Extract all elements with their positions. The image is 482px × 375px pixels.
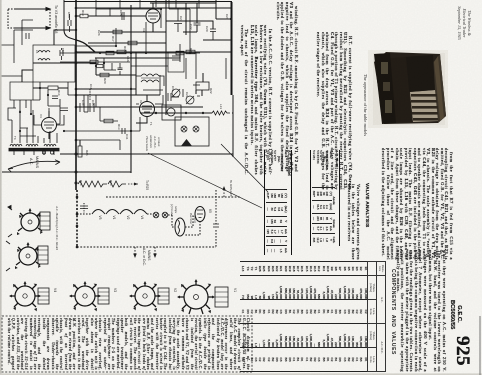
wire ht choke link — [76, 63, 116, 75]
svg-text:V3: V3 — [113, 288, 117, 292]
resistor R13 — [104, 119, 113, 123]
valve base b1 circle — [18, 209, 42, 231]
svg-text:V3: V3 — [98, 216, 102, 220]
wire left stubs — [0, 45, 22, 82]
node mains dots — [155, 112, 204, 114]
wire y46 — [76, 28, 116, 46]
wire y66 link — [131, 65, 168, 67]
label To A1 — [54, 5, 58, 25]
label R17 — [111, 36, 115, 42]
label R21 — [189, 48, 193, 54]
svg-text:C15: C15 — [67, 12, 71, 18]
svg-text:V1: V1 — [112, 216, 116, 220]
capacitor C33 — [60, 108, 68, 111]
label C14 — [61, 48, 65, 54]
wire vertical x186 — [185, 3, 187, 35]
wire AGC rail — [76, 106, 203, 108]
label C24 — [179, 16, 183, 22]
barretter — [175, 218, 185, 236]
wire ACDC dashed bottom rail — [77, 246, 216, 248]
wire vertical x166 — [165, 0, 167, 115]
wire agc mesh — [84, 95, 96, 107]
svg-text:C23: C23 — [225, 14, 229, 20]
wire selector drop — [196, 73, 203, 96]
wire left verticals — [14, 20, 33, 63]
svg-text:R20: R20 — [103, 78, 107, 84]
wire vertical x197 — [196, 3, 198, 23]
svg-text:C18: C18 — [89, 84, 93, 90]
svg-text:V2: V2 — [126, 216, 130, 220]
node T4 terminals — [42, 151, 53, 154]
resistor R10 — [96, 65, 103, 68]
wire schematic right border — [232, 95, 234, 157]
resistor R23 zigzag — [108, 181, 126, 187]
wire ift links — [96, 58, 116, 70]
label To C8 — [54, 24, 58, 33]
svg-text:R23: R23 — [109, 180, 113, 186]
svg-text:R24: R24 — [79, 180, 83, 186]
valve base V1 wheel — [178, 280, 214, 314]
label R25 — [85, 150, 89, 156]
wire anode feed — [100, 31, 166, 33]
label V2b — [173, 288, 177, 292]
label R20 — [103, 78, 107, 84]
wire det branch — [171, 89, 183, 97]
VALVE ANALYSIS intro note — [346, 184, 360, 260]
label R23 — [109, 180, 113, 186]
valve table AC model — [294, 150, 340, 246]
label C31 — [125, 134, 129, 140]
wire screen rail — [76, 51, 231, 53]
wire ACDC dashed top rail — [106, 196, 240, 198]
text column 2 paragraph — [373, 148, 453, 260]
resistor R15 — [106, 51, 114, 55]
IF transformer T3 box — [10, 82, 33, 100]
label R14 — [57, 90, 61, 96]
wire barretter links dashed — [168, 190, 216, 247]
wire selector feeds — [193, 85, 200, 96]
wire vertical x247 — [231, 2, 233, 95]
wire v4 anode leads — [34, 108, 64, 125]
valve base V2 top cap — [158, 288, 169, 304]
svg-text:V1: V1 — [233, 288, 237, 292]
svg-text:omitted in: omitted in — [149, 135, 153, 148]
wire top stubs — [96, 0, 199, 9]
svg-text:T1: T1 — [149, 122, 153, 126]
wire t3 bottom leads — [14, 100, 31, 114]
label V4 — [39, 114, 43, 118]
svg-text:To C8: To C8 — [54, 24, 58, 33]
coil L5 — [38, 51, 50, 61]
svg-text:C20: C20 — [205, 26, 209, 32]
svg-text:To R25,C23: To R25,C23 — [229, 180, 233, 197]
capacitor C22 — [183, 23, 201, 32]
capacitor C35 electrolytic — [90, 103, 94, 112]
capacitor C19 — [105, 12, 124, 20]
svg-text:C24: C24 — [179, 16, 183, 22]
svg-text:Barretter: Barretter — [189, 213, 193, 225]
label V3 — [142, 28, 146, 32]
tuning capacitor C21 — [186, 96, 194, 104]
wire bottom net 2 — [100, 107, 118, 121]
scale lamp 2 — [162, 212, 168, 218]
wire top rail 1 — [150, 2, 216, 4]
wire y140 rail — [76, 140, 120, 150]
aerial coupling dashed box — [8, 9, 50, 28]
svg-text:(2) Scale: (2) Scale — [170, 204, 174, 215]
node voltage taps — [175, 117, 209, 146]
mains transformer T4 primary — [9, 144, 59, 151]
svg-text:C25: C25 — [119, 10, 123, 16]
svg-text:R17: R17 — [111, 36, 115, 42]
svg-text:C26: C26 — [97, 30, 101, 36]
wire right inner vertical — [230, 58, 232, 95]
svg-text:A.C./D.C.: A.C./D.C. — [153, 135, 157, 149]
valve base V1 top cap — [215, 287, 228, 307]
svg-text:V2: V2 — [139, 100, 143, 104]
capacitor C36 dashed — [80, 203, 88, 213]
label V5 — [208, 209, 212, 213]
wire speaker links — [136, 76, 164, 90]
label V1b — [233, 288, 237, 292]
wire bottom net 1 — [84, 95, 88, 112]
capacitor C28 — [168, 93, 171, 101]
node To R25 arrow2 — [223, 188, 225, 197]
wire HT secondary loop — [8, 108, 36, 136]
capacitor box C29 — [168, 52, 184, 72]
capacitor C20 — [210, 29, 216, 40]
node selector taps — [181, 126, 199, 132]
wire y53 long — [60, 52, 200, 54]
wire cathode rail — [76, 94, 160, 96]
node mains arrowheads — [133, 254, 157, 259]
label R19 — [81, 10, 85, 16]
inductor heater V3 hump — [92, 210, 105, 215]
COMPONENTS AND VALUES heading — [387, 263, 396, 361]
svg-text:A.C. Model (top) A.C./D.C. Mod: A.C. Model (top) A.C./D.C. Model — [55, 205, 59, 250]
svg-text:R22: R22 — [209, 88, 213, 94]
label A.C. mains — [29, 156, 39, 168]
inductor heater V1 hump — [106, 210, 119, 215]
page edge bottom — [0, 373, 482, 375]
valve V3 — [146, 3, 160, 32]
label C18 — [89, 84, 93, 90]
capacitor C14 — [60, 48, 63, 60]
wire y21 branch — [166, 21, 213, 29]
wire ift top lead — [54, 30, 76, 45]
svg-text:R16: R16 — [126, 56, 130, 62]
label V4 — [53, 288, 57, 292]
svg-text:MAINS: MAINS — [35, 156, 39, 168]
svg-text:MAINS: MAINS — [147, 250, 151, 261]
A.C. mains arrow — [8, 160, 60, 172]
svg-text:V5: V5 — [208, 209, 212, 213]
label V3 — [98, 216, 102, 220]
node To A arrow — [14, 8, 50, 11]
svg-text:A.C. or D.C.: A.C. or D.C. — [142, 248, 146, 266]
wire heater chain dashed — [77, 213, 153, 215]
capacitor C2 — [26, 33, 29, 39]
wire x190 drop — [180, 9, 190, 62]
capacitor C18 — [89, 89, 91, 101]
svg-text:V4: V4 — [140, 216, 144, 220]
svg-text:L5: L5 — [35, 50, 39, 54]
pointer line to caption — [221, 144, 268, 192]
svg-text:C31: C31 — [125, 134, 129, 140]
wire grid rail — [76, 88, 136, 90]
valve base V2 wheel — [130, 282, 160, 307]
svg-text:V4: V4 — [39, 114, 43, 118]
label AC model — [55, 205, 59, 250]
wire V3 grid lead — [90, 15, 146, 17]
svg-text:R18: R18 — [123, 46, 127, 52]
text column strip 1b — [238, 25, 272, 175]
mains selector box — [196, 82, 209, 90]
node dashed junctions — [76, 196, 79, 249]
label R16 — [126, 56, 130, 62]
components table — [240, 261, 386, 372]
svg-text:V4: V4 — [53, 288, 57, 292]
wire mid verticals — [186, 52, 226, 79]
svg-text:R13: R13 — [117, 124, 121, 130]
node t3 dots — [19, 111, 32, 115]
label AC DC mains — [142, 248, 151, 266]
wire avc left — [22, 70, 33, 82]
svg-text:L13: L13 — [219, 104, 223, 109]
label C20 — [205, 26, 209, 32]
VALVE ANALYSIS heading — [362, 183, 369, 225]
wire y62 — [60, 61, 130, 63]
wire x60 drop — [57, 99, 60, 124]
svg-text:C35: C35 — [91, 100, 95, 106]
label R24 — [79, 180, 83, 186]
sheet number 925 — [452, 334, 471, 368]
wire mains line y113 — [140, 112, 233, 114]
capacitor C15 — [68, 14, 71, 32]
wire det rail — [33, 62, 76, 64]
svg-text:C11: C11 — [171, 86, 175, 92]
label V2 — [126, 216, 130, 220]
capacitor C31 — [122, 128, 125, 134]
resistor R21 — [166, 50, 203, 58]
resistor R16 — [117, 50, 126, 54]
rectifier valve V4 — [42, 111, 57, 139]
label C22 — [189, 24, 193, 30]
rectifier valve V5 — [195, 207, 205, 222]
circuit caption text — [6, 318, 250, 370]
wire top edge rail — [64, 1, 232, 3]
label C35 — [91, 100, 95, 106]
wire y75 ext — [116, 74, 136, 76]
resistor R12 — [176, 51, 184, 55]
svg-text:lamps: lamps — [174, 206, 178, 214]
valve base b1 frame — [8, 206, 50, 238]
svg-text:These leads: These leads — [145, 136, 149, 152]
IF transformer T2 box — [33, 45, 75, 82]
valve base b2 frame — [6, 241, 48, 271]
scale lamp 1 — [153, 212, 159, 218]
wire ACDC dashed bus — [76, 190, 78, 247]
col3 note: measurement conditions — [390, 250, 446, 372]
resistor R14 — [33, 86, 68, 90]
wire bus jog — [76, 40, 95, 52]
resistor R20 — [100, 73, 109, 77]
wire v2 anode net — [136, 75, 163, 104]
wire osc vertical — [64, 0, 76, 40]
node arrowhead2 — [222, 186, 225, 190]
svg-text:R25: R25 — [85, 150, 89, 156]
label C25 — [119, 10, 123, 16]
resistor R24 zigzag — [78, 181, 107, 187]
label T1 — [149, 122, 153, 126]
resistor R18 — [128, 41, 137, 45]
label C15 — [67, 12, 71, 18]
wire vertical x136 — [135, 52, 137, 95]
pointer from label — [148, 153, 262, 208]
resistor R19 — [76, 14, 96, 18]
speaker transformer T1 — [141, 74, 159, 82]
node base arrowheads — [9, 208, 215, 313]
wire x146 drop — [145, 22, 147, 53]
label V1 — [112, 216, 116, 220]
valve base b2 circle — [16, 243, 40, 265]
wire y131 rail — [64, 117, 140, 131]
wire aux rail — [95, 57, 166, 59]
label L5 — [35, 50, 39, 54]
wire T4 leads down — [14, 148, 54, 155]
svg-text:A.C.: A.C. — [29, 158, 33, 165]
label C11 — [171, 86, 175, 92]
text column strip 2 — [300, 32, 352, 190]
label R18 — [123, 46, 127, 52]
valve base V3 wheel — [70, 282, 100, 307]
node frame dots — [130, 52, 132, 132]
node extra dots — [19, 8, 232, 132]
capacitor C27 — [118, 63, 123, 75]
label barretter 304 — [189, 213, 197, 225]
svg-text:V2: V2 — [173, 288, 177, 292]
resistor R11 — [90, 60, 98, 64]
resistor R22 — [212, 111, 230, 115]
label T4 — [13, 136, 17, 140]
photo caption: The appearance of the table models — [353, 72, 368, 138]
valve V2 — [136, 95, 155, 123]
label To R25 C23b — [229, 180, 233, 197]
capacitor C34 electrolytic — [76, 103, 90, 112]
svg-text:T4: T4 — [13, 136, 17, 140]
wire top inner verticals — [96, 3, 178, 21]
wire T4 leads up — [12, 110, 57, 143]
wire frame vertical x131 — [130, 5, 132, 173]
valve base V4 wheel — [10, 282, 40, 307]
label V3b — [113, 288, 117, 292]
node to R25 arrow — [128, 183, 138, 186]
resistor R17 — [113, 30, 122, 34]
wire top rail 2 — [76, 7, 231, 9]
header: The Wireless & Electrical Trader date — [459, 3, 471, 43]
label V2 — [139, 100, 143, 104]
page edge left — [0, 0, 2, 375]
tuning capacitor C11 — [172, 89, 180, 97]
wire mains stubs — [135, 247, 155, 255]
svg-text:version: version — [157, 137, 161, 147]
label C23 — [225, 14, 229, 20]
label R22 — [209, 88, 213, 94]
node det dots — [39, 62, 105, 96]
svg-text:To V3 anode: To V3 anode — [54, 5, 58, 25]
wire y40 branch — [203, 39, 231, 41]
inductor heater V2 hump — [120, 210, 133, 215]
G.E.C. BC5050/55 title — [447, 300, 462, 328]
svg-text:To R25: To R25 — [145, 180, 149, 190]
wire anode rail y9 — [96, 8, 190, 10]
label L13 — [219, 104, 223, 109]
label V4h — [140, 216, 144, 220]
wire y42 link — [88, 42, 166, 44]
wire vertical x231 — [216, 0, 232, 58]
capacitor C16 — [52, 96, 58, 99]
label R13 — [117, 124, 121, 130]
svg-text:V3: V3 — [142, 28, 146, 32]
rectifier box V4 — [162, 105, 181, 120]
caption dashed border box — [2, 316, 252, 372]
label C21 — [185, 92, 189, 98]
capacitor C37 — [213, 202, 219, 227]
inductor heater V4 hump — [134, 210, 147, 215]
wire HT bus (main vertical) — [75, 0, 77, 190]
valve base V4 top cap — [38, 288, 49, 304]
photo of table model — [368, 50, 448, 128]
resistor R25 — [78, 140, 82, 157]
svg-text:R14: R14 — [57, 90, 61, 96]
valve table ACDC model — [240, 150, 292, 255]
wire frame bottom left — [2, 171, 131, 173]
wire chassis rail — [60, 153, 233, 155]
svg-text:C21: C21 — [185, 92, 189, 98]
wire x161 drop — [161, 0, 169, 28]
label scale lamps — [170, 204, 178, 215]
label 0.30V — [145, 180, 149, 190]
label C26 — [97, 30, 101, 36]
node To C8 arrow — [14, 27, 50, 30]
text column strip 1a — [272, 2, 298, 172]
page rule right edge — [479, 316, 481, 375]
fuse symbol — [181, 139, 192, 146]
capacitor C24 — [174, 21, 182, 32]
label C34 — [81, 100, 85, 106]
node junction dots on bus — [75, 7, 78, 185]
svg-text:R19: R19 — [81, 10, 85, 16]
valve base V3 top cap — [98, 288, 109, 304]
wire det cluster verticals — [33, 82, 76, 106]
label these leads omitted — [145, 135, 161, 152]
